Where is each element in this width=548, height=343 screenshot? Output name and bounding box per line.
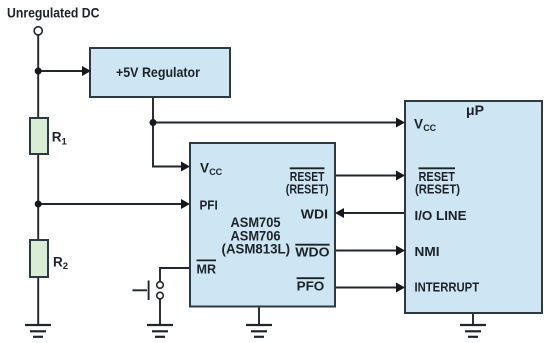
svg-text:μP: μP [466, 102, 484, 118]
svg-text:PFO: PFO [297, 278, 325, 293]
svg-text:1: 1 [62, 136, 68, 147]
svg-text:V: V [414, 116, 423, 131]
svg-text:I/O LINE: I/O LINE [415, 208, 467, 223]
svg-text:CC: CC [209, 167, 222, 177]
svg-text:WDO: WDO [295, 245, 329, 260]
svg-text:(ASM813L): (ASM813L) [222, 241, 291, 257]
svg-text:PFI: PFI [200, 198, 218, 213]
svg-text:NMI: NMI [415, 244, 440, 259]
svg-text:R: R [52, 130, 62, 145]
svg-text:Unregulated DC: Unregulated DC [7, 5, 100, 21]
svg-text:2: 2 [63, 261, 68, 272]
svg-text:R: R [53, 254, 63, 269]
svg-text:CC: CC [423, 123, 436, 133]
svg-text:(RESET): (RESET) [286, 181, 329, 196]
svg-text:WDI: WDI [301, 206, 328, 221]
svg-text:+5V Regulator: +5V Regulator [116, 64, 200, 80]
svg-text:MR: MR [197, 262, 217, 277]
svg-text:INTERRUPT: INTERRUPT [415, 280, 480, 295]
svg-text:(RESET): (RESET) [415, 181, 460, 196]
svg-text:V: V [200, 160, 209, 175]
